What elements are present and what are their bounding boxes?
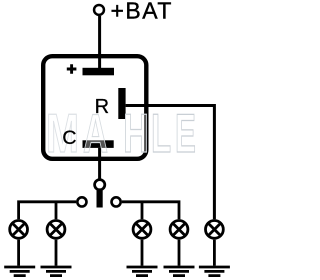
plate R terminal (118, 88, 125, 119)
wire lamp E4 to ground (178, 240, 181, 266)
wire C to switch pivot (98, 148, 101, 180)
watermark MAHLE (46, 102, 196, 165)
switch right contact (112, 197, 121, 206)
relay box U1 (43, 56, 146, 159)
svg-text:R: R (95, 96, 109, 118)
wire branch to lamp E3 (141, 202, 144, 220)
plate plus terminal (83, 68, 115, 76)
wire lamp E3 to ground (141, 240, 144, 266)
svg-text:C: C (62, 127, 76, 149)
wire lamp E1 to ground (17, 240, 20, 266)
svg-text:H: H (123, 102, 149, 164)
wire battery to plus plate (98, 16, 101, 70)
svg-text:E: E (175, 103, 196, 164)
ground 3 (127, 267, 158, 276)
switch left contact (77, 197, 86, 206)
ground 4 (164, 267, 195, 276)
plate C terminal (83, 140, 114, 148)
lamp E1 (10, 221, 28, 239)
ground 2 (41, 267, 72, 276)
lamp E5 pilot (206, 221, 224, 239)
switch pivot terminal (95, 180, 105, 190)
lamp E4 (170, 221, 188, 239)
wire R to pilot lamp (126, 106, 215, 220)
svg-text:+BAT: +BAT (111, 0, 173, 24)
switch lever (97, 191, 103, 208)
lamp E2 (47, 221, 65, 239)
wire lamp E2 to ground (55, 240, 58, 266)
ground 5 (199, 267, 230, 276)
wire left contact to left lamps (19, 202, 76, 219)
lamp E3 (133, 221, 151, 239)
svg-text:L: L (151, 102, 171, 164)
wire branch to lamp E2 (55, 202, 58, 220)
ground 1 (4, 267, 35, 276)
wire right contact to right lamps (122, 202, 179, 219)
wire lamp E5 to ground (213, 240, 216, 266)
terminal +BAT (94, 5, 104, 15)
label + (plus terminal) (67, 64, 77, 74)
